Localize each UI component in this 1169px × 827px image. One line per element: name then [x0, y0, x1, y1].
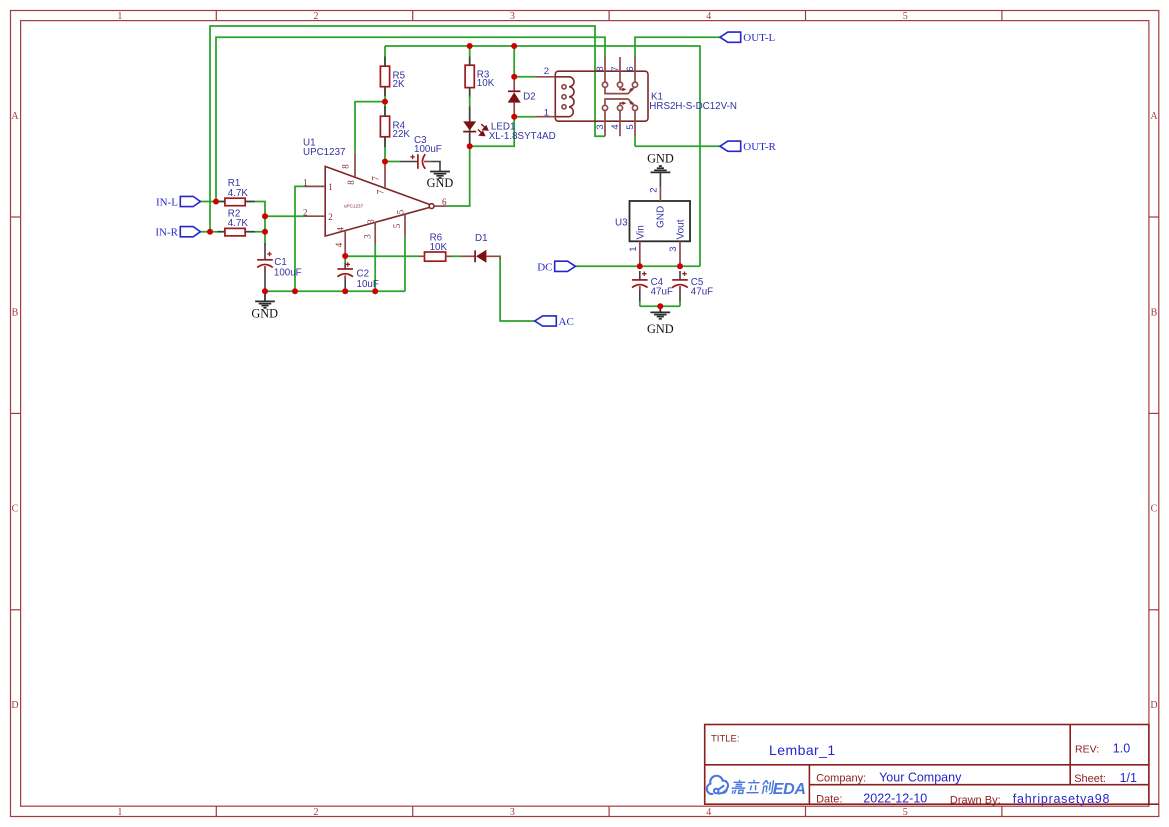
svg-text:1: 1	[628, 247, 639, 252]
svg-text:2: 2	[328, 212, 333, 222]
svg-text:6: 6	[442, 197, 447, 207]
svg-text:C2: C2	[357, 269, 370, 280]
svg-text:C1: C1	[274, 257, 287, 268]
svg-text:A: A	[11, 111, 19, 122]
svg-text:GND: GND	[647, 151, 674, 165]
svg-text:2: 2	[314, 807, 319, 818]
svg-text:C: C	[1151, 504, 1158, 515]
svg-text:3: 3	[595, 124, 606, 129]
svg-text:4: 4	[706, 807, 711, 818]
svg-text:2: 2	[648, 188, 659, 193]
svg-text:C: C	[12, 504, 19, 515]
svg-text:GND: GND	[656, 206, 667, 228]
svg-text:3: 3	[510, 11, 515, 22]
svg-text:D2: D2	[523, 92, 536, 103]
svg-text:8: 8	[595, 66, 606, 71]
svg-text:Your Company: Your Company	[879, 771, 962, 785]
svg-text:4.7K: 4.7K	[228, 218, 249, 229]
svg-text:D: D	[11, 700, 18, 711]
svg-text:HRS2H-S-DC12V-N: HRS2H-S-DC12V-N	[649, 101, 737, 112]
svg-text:1: 1	[328, 182, 333, 192]
svg-text:4: 4	[334, 242, 344, 247]
svg-text:5: 5	[396, 209, 406, 214]
svg-text:5: 5	[625, 124, 636, 129]
svg-text:5: 5	[903, 11, 908, 22]
svg-text:47uF: 47uF	[691, 286, 713, 297]
svg-text:2: 2	[314, 11, 319, 22]
svg-text:Vout: Vout	[676, 219, 687, 239]
svg-text:Company:: Company:	[816, 773, 866, 785]
svg-text:XL-1.8SYT4AD: XL-1.8SYT4AD	[489, 131, 556, 142]
svg-text:3: 3	[668, 247, 679, 252]
svg-text:1: 1	[117, 11, 122, 22]
svg-text:5: 5	[392, 223, 402, 228]
svg-text:D: D	[1150, 700, 1157, 711]
svg-text:Drawn By:: Drawn By:	[950, 794, 1001, 806]
svg-text:DC: DC	[537, 261, 552, 273]
svg-text:2K: 2K	[393, 79, 405, 90]
svg-text:3: 3	[366, 219, 376, 224]
svg-text:Date:: Date:	[816, 794, 842, 806]
svg-text:10K: 10K	[430, 242, 448, 253]
svg-text:A: A	[1150, 111, 1158, 122]
svg-text:1: 1	[544, 107, 549, 118]
svg-text:3: 3	[510, 807, 515, 818]
svg-text:7: 7	[371, 176, 381, 181]
svg-text:U3: U3	[615, 218, 628, 229]
svg-text:2022-12-10: 2022-12-10	[863, 792, 927, 806]
svg-text:6: 6	[625, 66, 636, 71]
svg-text:IN-R: IN-R	[155, 227, 178, 239]
svg-text:2: 2	[303, 207, 308, 217]
svg-text:TITLE:: TITLE:	[711, 734, 740, 745]
svg-text:1: 1	[117, 807, 122, 818]
svg-text:10uF: 10uF	[357, 279, 379, 290]
svg-text:1: 1	[303, 178, 308, 188]
svg-text:7: 7	[610, 66, 621, 71]
svg-text:4.7K: 4.7K	[228, 188, 249, 199]
svg-text:Vin: Vin	[635, 225, 646, 239]
svg-text:47uF: 47uF	[651, 286, 673, 297]
svg-text:OUT-R: OUT-R	[743, 141, 776, 153]
svg-text:10K: 10K	[477, 78, 495, 89]
svg-text:22K: 22K	[393, 129, 411, 140]
svg-text:Sheet:: Sheet:	[1074, 773, 1106, 785]
svg-text:uPC1237: uPC1237	[344, 204, 364, 209]
svg-text:4: 4	[336, 227, 346, 232]
svg-text:IN-L: IN-L	[156, 197, 178, 209]
svg-text:AC: AC	[559, 316, 574, 328]
svg-text:fahriprasetya98: fahriprasetya98	[1013, 792, 1110, 806]
svg-text:4: 4	[706, 11, 711, 22]
svg-text:OUT-L: OUT-L	[743, 32, 775, 44]
svg-text:5: 5	[903, 807, 908, 818]
svg-text:1.0: 1.0	[1113, 742, 1130, 756]
svg-text:8: 8	[341, 164, 351, 169]
svg-text:100uF: 100uF	[414, 144, 442, 155]
svg-text:4: 4	[610, 124, 621, 129]
svg-text:B: B	[1151, 307, 1158, 318]
svg-text:100uF: 100uF	[274, 268, 302, 279]
svg-text:GND: GND	[251, 306, 278, 320]
svg-text:1/1: 1/1	[1120, 771, 1137, 785]
svg-text:2: 2	[544, 66, 549, 77]
svg-text:3: 3	[362, 234, 372, 239]
svg-text:B: B	[12, 307, 19, 318]
svg-text:7: 7	[376, 189, 386, 194]
svg-text:UPC1237: UPC1237	[303, 147, 345, 158]
svg-text:GND: GND	[647, 322, 674, 336]
svg-text:Lembar_1: Lembar_1	[769, 742, 836, 758]
svg-text:GND: GND	[427, 176, 454, 190]
svg-text:8: 8	[346, 180, 356, 185]
svg-text:EDA: EDA	[773, 781, 806, 798]
svg-text:REV:: REV:	[1075, 743, 1099, 755]
svg-text:D1: D1	[475, 233, 488, 244]
